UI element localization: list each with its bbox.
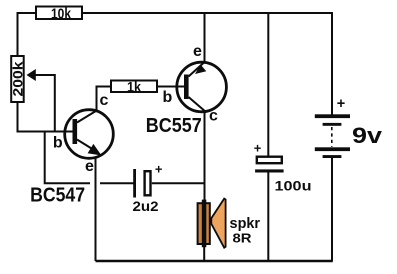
svg-text:200k: 200k bbox=[9, 61, 25, 96]
wire Q1 emitter down to 0v rail bbox=[95, 154, 97, 261]
potentiometer VR1 200k bbox=[9, 56, 36, 102]
wire speaker bottom lead bbox=[203, 246, 205, 261]
capacitor C1 2u2 electrolytic bbox=[133, 162, 163, 198]
transistor Q2 BC557 bbox=[177, 62, 227, 112]
svg-text:c: c bbox=[99, 92, 108, 109]
wire battery - lead bbox=[331, 156, 333, 261]
wire bottom 0v rail bbox=[96, 260, 333, 262]
wire pot bottom to Q1 base bbox=[18, 102, 74, 132]
wire top rail and battery + lead bbox=[83, 13, 332, 115]
wire 100u bottom lead bbox=[267, 171, 269, 261]
svg-text:c: c bbox=[209, 108, 218, 125]
wire top-left from 10k to pot bbox=[18, 13, 36, 56]
svg-text:spkr: spkr bbox=[230, 215, 261, 232]
svg-text:1k: 1k bbox=[127, 78, 141, 94]
speaker LS1 bbox=[198, 199, 226, 248]
svg-text:100u: 100u bbox=[275, 178, 312, 194]
svg-text:+: + bbox=[254, 140, 262, 155]
svg-text:BC547: BC547 bbox=[30, 185, 85, 207]
svg-text:10k: 10k bbox=[51, 6, 72, 23]
transistor Q1 BC547 bbox=[65, 110, 114, 159]
wire 2u2 left lead (crossover gap) bbox=[100, 182, 134, 184]
svg-text:BC557: BC557 bbox=[146, 115, 202, 137]
svg-text:+: + bbox=[155, 162, 163, 177]
resistor R2 1k bbox=[111, 78, 157, 94]
svg-text:e: e bbox=[193, 43, 202, 60]
capacitor C2 100u electrolytic bbox=[254, 140, 284, 172]
wire 1k to Q2 base bbox=[157, 86, 184, 88]
wire Q2 collector down to speaker bbox=[204, 111, 206, 201]
wire Q1 collector up to 1k bbox=[97, 87, 112, 111]
battery B1 9v bbox=[315, 96, 350, 158]
wire Q2 emitter to top rail bbox=[204, 13, 206, 63]
svg-text:2u2: 2u2 bbox=[133, 198, 159, 214]
wire feedback from base node down to 2u2 bbox=[45, 132, 90, 184]
resistor R1 10k bbox=[36, 6, 82, 23]
svg-text:8R: 8R bbox=[233, 231, 253, 246]
svg-text:e: e bbox=[85, 158, 94, 175]
svg-text:b: b bbox=[53, 135, 63, 152]
svg-text:9v: 9v bbox=[352, 123, 383, 148]
wire 100u top lead bbox=[267, 13, 269, 157]
svg-text:b: b bbox=[163, 89, 173, 106]
svg-text:+: + bbox=[337, 96, 345, 112]
wire pot wiper to base bbox=[35, 75, 55, 132]
wire 2u2 to speaker node bbox=[152, 182, 205, 184]
